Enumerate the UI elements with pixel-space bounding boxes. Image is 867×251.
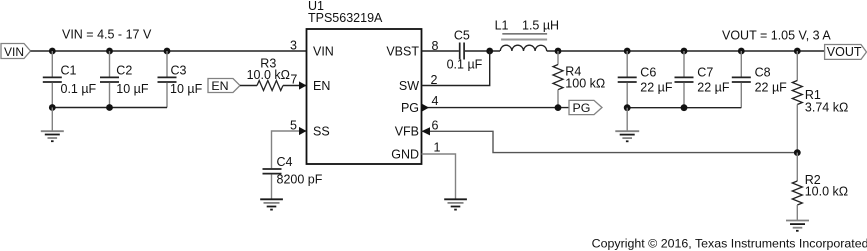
svg-text:VIN = 4.5 - 17 V: VIN = 4.5 - 17 V: [62, 28, 152, 42]
wire PG pin 4: [422, 107, 570, 109]
wire VBST pin 8 to C5: [422, 50, 459, 52]
svg-text:0.1 µF: 0.1 µF: [447, 58, 483, 72]
svg-text:VBST: VBST: [386, 45, 419, 59]
ground input rail: [41, 108, 64, 142]
svg-text:100 kΩ: 100 kΩ: [565, 77, 605, 91]
wire SW pin 2: [422, 51, 490, 86]
svg-text:C8: C8: [755, 66, 771, 80]
svg-text:3: 3: [290, 39, 297, 53]
svg-text:C1: C1: [61, 64, 77, 78]
pin 6 arrow into VFB: [422, 127, 431, 135]
svg-text:C2: C2: [116, 64, 132, 78]
pin 5 arrow into SS: [299, 127, 307, 135]
svg-text:C5: C5: [454, 29, 470, 43]
svg-text:PG: PG: [401, 101, 419, 115]
svg-text:1.5 µH: 1.5 µH: [522, 19, 559, 33]
node junction dot C8 top: [738, 48, 745, 55]
svg-text:7: 7: [290, 73, 297, 87]
svg-text:3.74 kΩ: 3.74 kΩ: [805, 101, 848, 115]
svg-text:6: 6: [432, 118, 439, 132]
node junction dot C6 bottom: [624, 104, 631, 111]
capacitor C3: [158, 51, 203, 108]
node junction dot L1/R4: [555, 48, 562, 55]
svg-text:1: 1: [434, 141, 441, 155]
capacitor C6: [618, 51, 673, 108]
node junction dot C5/SW: [486, 48, 493, 55]
svg-text:10.0 kΩ: 10.0 kΩ: [805, 185, 848, 199]
node junction dot R1/R2/VFB: [794, 149, 801, 156]
svg-text:SS: SS: [313, 125, 330, 139]
svg-text:22 µF: 22 µF: [755, 80, 788, 94]
node junction dot C6 top: [624, 48, 631, 55]
svg-text:Copyright © 2016, Texas Instru: Copyright © 2016, Texas Instruments Inco…: [592, 236, 867, 250]
node junction dot C7 top: [681, 48, 688, 55]
svg-text:VFB: VFB: [395, 125, 419, 139]
node EN input tag: [208, 79, 240, 94]
svg-text:10.0 kΩ: 10.0 kΩ: [247, 68, 290, 82]
pin 7 arrow into EN: [299, 81, 307, 89]
svg-text:EN: EN: [211, 79, 228, 93]
capacitor C1: [43, 51, 97, 108]
svg-text:22 µF: 22 µF: [640, 80, 673, 94]
wire bottom input rail: [52, 107, 167, 109]
svg-text:22 µF: 22 µF: [697, 80, 730, 94]
resistor R4: [553, 51, 605, 108]
svg-text:VIN: VIN: [313, 45, 334, 59]
node VOUT output tag: [825, 45, 867, 60]
ground output rail: [615, 108, 639, 142]
wire VIN rail to pin 3: [31, 50, 307, 52]
capacitor C2: [100, 51, 149, 108]
svg-text:TPS563219A: TPS563219A: [308, 11, 383, 25]
svg-text:C6: C6: [640, 66, 656, 80]
svg-text:0.1 µF: 0.1 µF: [61, 82, 97, 96]
node junction dot C2 bottom: [106, 104, 113, 111]
wire L1 to VOUT rail: [547, 50, 825, 52]
ground C4: [260, 199, 283, 209]
op-amp U1 TPS563219A box: [307, 0, 422, 164]
node PG output tag: [569, 100, 602, 115]
svg-text:C3: C3: [171, 64, 187, 78]
node junction dot C3 top: [164, 48, 171, 55]
wire VFB feedback: [422, 131, 798, 152]
wire C5 to SW node: [465, 50, 500, 52]
svg-text:4: 4: [432, 94, 439, 108]
svg-text:8200 pF: 8200 pF: [277, 173, 323, 187]
node junction dot C1 bottom: [49, 104, 56, 111]
svg-text:PG: PG: [573, 101, 591, 115]
ground U1 GND: [444, 199, 467, 209]
node junction dot C2 top: [106, 48, 113, 55]
capacitor C4: [263, 155, 323, 199]
ground R2: [786, 221, 809, 231]
wire SS pin 5: [272, 131, 307, 168]
node junction dot R1 top: [794, 48, 801, 55]
resistor R2: [792, 153, 848, 221]
svg-text:EN: EN: [313, 79, 330, 93]
capacitor C5: [447, 29, 483, 72]
svg-text:C4: C4: [277, 155, 293, 169]
svg-text:5: 5: [290, 118, 297, 132]
svg-text:C7: C7: [697, 66, 713, 80]
capacitor C8: [732, 51, 787, 108]
svg-text:VIN: VIN: [4, 45, 24, 59]
node VIN input tag: [1, 44, 31, 59]
svg-text:GND: GND: [391, 148, 419, 162]
resistor R1: [792, 51, 848, 153]
pin 4 arrow out PG: [422, 104, 430, 112]
wire EN tag to R3: [240, 85, 257, 87]
svg-text:10 µF: 10 µF: [116, 82, 149, 96]
node junction dot C7 bottom: [681, 104, 688, 111]
node junction dot VIN/C1: [49, 48, 56, 55]
inductor L1: [495, 19, 559, 51]
svg-text:L1: L1: [495, 19, 509, 33]
wire R3 to pin 7: [283, 85, 307, 87]
node junction dot PG: [555, 104, 562, 111]
wire GND pin 1: [422, 154, 456, 199]
svg-text:SW: SW: [399, 79, 419, 93]
capacitor C7: [675, 51, 730, 108]
svg-text:10 µF: 10 µF: [170, 82, 203, 96]
wire output cap bottom rail: [627, 107, 741, 109]
resistor R3: [247, 57, 290, 91]
svg-text:VOUT: VOUT: [827, 45, 862, 59]
svg-text:VOUT = 1.05 V, 3 A: VOUT = 1.05 V, 3 A: [722, 28, 831, 42]
